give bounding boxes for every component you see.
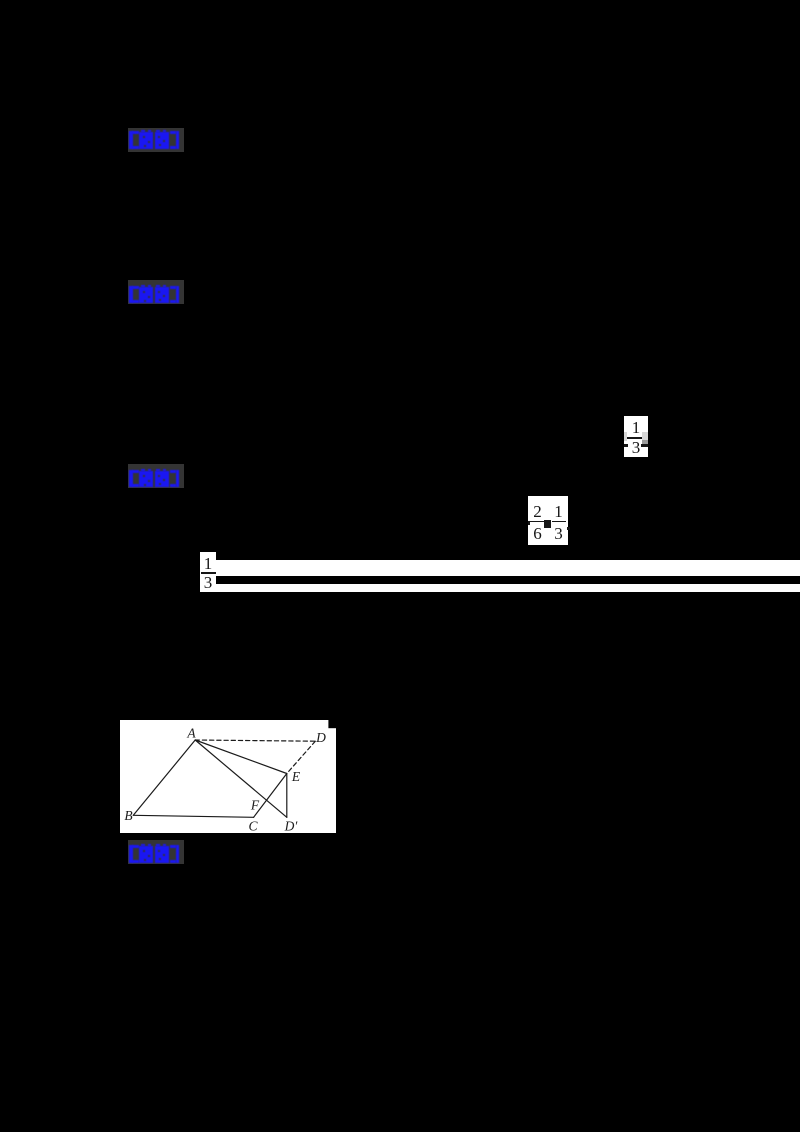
svg-text:A: A: [186, 725, 196, 740]
svg-text:C: C: [248, 818, 258, 833]
svg-text:B: B: [124, 808, 132, 823]
svg-text:F: F: [249, 797, 259, 812]
svg-text:D: D: [315, 730, 326, 745]
svg-text:D′: D′: [283, 818, 298, 833]
svg-text:E: E: [290, 769, 300, 784]
